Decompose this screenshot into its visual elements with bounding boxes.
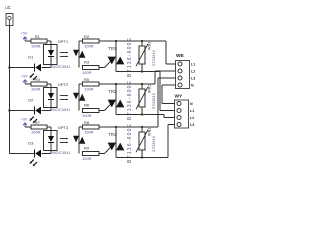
svg-text:D3: D3 <box>28 141 34 146</box>
varistor WB1 value <box>151 49 156 66</box>
opto OPT3 coupling arrows <box>60 138 68 143</box>
varistor WB1 name <box>147 42 152 50</box>
resistor R1 <box>31 34 47 48</box>
LED D3 triangle <box>35 150 41 158</box>
svg-text:N: N <box>190 102 193 106</box>
wire +5V to R4 <box>25 83 31 85</box>
LED D3 emission arrows <box>30 160 37 166</box>
wire R4 to opto LED <box>47 84 51 88</box>
uC connector X1 <box>5 5 13 25</box>
resistor R3 <box>82 60 99 76</box>
varistor WB1 <box>136 41 148 72</box>
connector WE (mains input) <box>170 53 196 89</box>
triac TR2 <box>108 84 125 115</box>
wire ch3 top to WE L3 <box>158 78 170 127</box>
junction WB2 top <box>141 83 143 85</box>
wire ch1 bottom rail <box>116 71 160 73</box>
svg-text:07D391K: 07D391K <box>151 92 156 109</box>
LED D2 label <box>28 98 34 103</box>
opto OPT2 LED triangle <box>48 93 54 99</box>
svg-text:MOC3041: MOC3041 <box>52 64 71 69</box>
LED D1 emission arrows <box>30 74 37 80</box>
svg-text:uC: uC <box>5 5 11 10</box>
LED D1 cathode bar <box>34 64 36 72</box>
junction WB1 bottom <box>141 70 143 72</box>
svg-text:100R: 100R <box>84 130 94 135</box>
wire ch3 bottom rail <box>116 157 168 159</box>
svg-text:WB1: WB1 <box>147 42 152 50</box>
wire +5V to R7 <box>25 126 31 128</box>
junction on bus at D2 <box>8 109 10 111</box>
triac TR2 value BT136-600E <box>127 80 133 120</box>
wire ch3 bottom to WY L3 <box>168 125 170 158</box>
svg-text:L2: L2 <box>191 70 195 74</box>
svg-text:WB3: WB3 <box>147 128 152 136</box>
triac TR3 <box>108 127 125 158</box>
svg-text:D2: D2 <box>28 98 34 103</box>
svg-text:N: N <box>191 84 194 88</box>
svg-text:L1: L1 <box>190 109 194 113</box>
opto OPT2 coupling arrows <box>60 95 68 100</box>
wire opto OPT1 cathode down <box>42 65 52 68</box>
varistor WB2 <box>136 84 148 115</box>
svg-text:L1: L1 <box>191 63 195 67</box>
svg-text:+5V: +5V <box>21 32 28 36</box>
wire D3 to uC bus <box>9 153 34 155</box>
wire ch2 top rail <box>99 83 155 85</box>
svg-text:WB2: WB2 <box>147 85 152 93</box>
opto-coupler OPT1 LED box <box>44 45 58 65</box>
svg-text:L3: L3 <box>191 77 195 81</box>
svg-text:R7: R7 <box>35 120 41 125</box>
LED D3 cathode bar <box>34 150 36 158</box>
resistor R9 <box>82 146 99 162</box>
opto OPT3 LED anode lead <box>50 131 52 137</box>
junction TR2 top <box>115 83 117 85</box>
svg-text:+5V: +5V <box>21 75 28 79</box>
LED D1 triangle <box>35 64 41 72</box>
resistor R2 <box>83 34 100 48</box>
varistor WB2 name <box>147 85 152 93</box>
svg-text:R3: R3 <box>84 60 90 65</box>
wire WE N to WY N <box>162 85 170 104</box>
svg-text:OPT2: OPT2 <box>58 82 69 87</box>
wire D3 branch <box>9 153 35 155</box>
wire top rail OPT1 to R2 <box>79 40 83 42</box>
junction on bus at D1 <box>8 66 10 68</box>
opto OPT1 LED triangle <box>48 50 54 56</box>
svg-text:07D391K: 07D391K <box>151 135 156 152</box>
svg-text:100R: 100R <box>82 113 92 118</box>
wire D1 to uC bus <box>9 67 34 69</box>
opto-coupler OPT2 LED box <box>44 88 58 108</box>
svg-text:100R: 100R <box>82 156 92 161</box>
+5V supply symbol (channel OPT3) <box>21 118 28 127</box>
LED D2 emission arrows <box>30 117 37 123</box>
wire R7 to opto LED <box>47 127 51 131</box>
opto OPT1 coupling arrows <box>60 52 68 57</box>
connector WY (output) <box>170 94 195 129</box>
svg-text:R4: R4 <box>35 77 41 82</box>
LED D2 triangle <box>35 107 41 115</box>
svg-text:100R: 100R <box>82 70 92 75</box>
opto OPT1 output triac <box>73 41 85 68</box>
wire R9 to TR3 gate <box>99 153 105 155</box>
svg-text:BT136-600E: BT136-600E <box>127 37 133 77</box>
svg-text:R5: R5 <box>84 77 90 82</box>
opto OPT2 output triac <box>73 84 85 111</box>
wire uC bus <box>8 25 10 153</box>
opto-coupler OPT3 LED box <box>44 131 58 151</box>
opto OPT2 LED anode lead <box>50 88 52 94</box>
svg-text:L2: L2 <box>190 116 194 120</box>
svg-text:WY: WY <box>175 94 184 100</box>
resistor R8 <box>83 120 100 134</box>
svg-text:100R: 100R <box>31 87 41 92</box>
opto OPT1 LED anode lead <box>50 45 52 51</box>
svg-text:R1: R1 <box>35 34 41 39</box>
opto OPT3 LED cathode lead <box>50 143 52 151</box>
svg-text:R8: R8 <box>84 120 90 125</box>
svg-text:WE: WE <box>176 53 185 59</box>
TR2 gate diagonal <box>105 104 112 111</box>
svg-text:100R: 100R <box>84 87 94 92</box>
svg-text:R9: R9 <box>84 146 90 151</box>
wire R1 to opto LED <box>47 41 51 45</box>
varistor WB2 value <box>151 92 156 109</box>
triac TR3 value BT136-600E <box>127 123 133 163</box>
wire ch2 bottom to WY L2 <box>164 115 170 118</box>
svg-text:R6: R6 <box>84 103 90 108</box>
wire top rail OPT2 to R5 <box>79 83 83 85</box>
wire ch1 top rail <box>99 40 166 42</box>
svg-text:R2: R2 <box>84 34 90 39</box>
svg-text:L3: L3 <box>190 123 194 127</box>
svg-text:MOC3041: MOC3041 <box>52 150 71 155</box>
wire ch3 top rail <box>99 126 158 128</box>
junction WB3 top <box>141 126 143 128</box>
LED D2 cathode bar <box>34 107 36 115</box>
opto OPT2 LED cathode lead <box>50 100 52 108</box>
svg-text:100R: 100R <box>84 44 94 49</box>
opto OPT2 LED cathode bar <box>48 99 54 101</box>
wire ch1 top to WE L1 <box>166 41 170 64</box>
opto OPT3 LED cathode bar <box>48 142 54 144</box>
svg-text:BT136-600E: BT136-600E <box>127 80 133 120</box>
opto OPT3 value MOC3041 <box>52 150 71 155</box>
junction WB1 top <box>141 40 143 42</box>
triac TR1 value BT136-600E <box>127 37 133 77</box>
opto OPT1 value MOC3041 <box>52 64 71 69</box>
junction WB3 bottom <box>141 156 143 158</box>
wire ch2 top to WE L2 <box>155 71 170 84</box>
svg-text:07D391K: 07D391K <box>151 49 156 66</box>
opto OPT1 LED cathode lead <box>50 57 52 65</box>
TR1 gate diagonal <box>105 61 112 68</box>
junction WB2 bottom <box>141 113 143 115</box>
opto OPT2 name label <box>58 82 69 87</box>
TR3 gate diagonal <box>105 147 112 154</box>
varistor WB3 value <box>151 135 156 152</box>
wire D2 to uC bus <box>9 110 34 112</box>
triac TR1 <box>108 41 125 72</box>
svg-text:OPT1: OPT1 <box>58 39 69 44</box>
+5V supply symbol (channel OPT2) <box>21 75 28 84</box>
varistor WB3 name <box>147 128 152 136</box>
svg-text:D1: D1 <box>28 55 34 60</box>
wire R3 to TR1 gate <box>99 67 105 69</box>
opto OPT3 LED triangle <box>48 136 54 142</box>
wire R6 to TR2 gate <box>99 110 105 112</box>
opto OPT2 value MOC3041 <box>52 107 71 112</box>
resistor R4 <box>31 77 47 91</box>
LED D1 label <box>28 55 34 60</box>
opto OPT1 LED cathode bar <box>48 56 54 58</box>
opto OPT3 name label <box>58 125 69 130</box>
wire opto OPT3 cathode down <box>42 151 52 154</box>
svg-text:BT136-600E: BT136-600E <box>127 123 133 163</box>
wire ch2 bottom rail <box>116 114 164 116</box>
svg-text:+5V: +5V <box>21 118 28 122</box>
opto OPT1 name label <box>58 39 69 44</box>
svg-text:100R: 100R <box>31 44 41 49</box>
junction TR3 top <box>115 126 117 128</box>
wire +5V to R1 <box>25 40 31 42</box>
junction TR1 top <box>115 40 117 42</box>
svg-text:100R: 100R <box>31 130 41 135</box>
wire opto OPT2 cathode down <box>42 108 52 111</box>
resistor R5 <box>83 77 100 91</box>
wire top rail OPT3 to R8 <box>79 126 83 128</box>
LED D3 label <box>28 141 34 146</box>
resistor R6 <box>82 103 99 119</box>
svg-text:MOC3041: MOC3041 <box>52 107 71 112</box>
varistor WB3 <box>136 127 148 158</box>
opto OPT3 output triac <box>73 127 85 154</box>
resistor R7 <box>31 120 47 134</box>
+5V supply symbol (channel OPT1) <box>21 32 28 41</box>
wire ch1 bottom to WY L1 <box>160 72 170 111</box>
svg-text:OPT3: OPT3 <box>58 125 69 130</box>
